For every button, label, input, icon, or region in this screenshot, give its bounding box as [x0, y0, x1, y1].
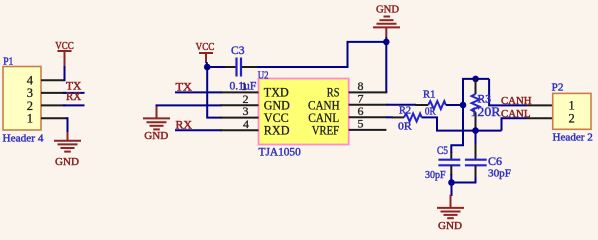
wire CANH black to P2 pin1	[526, 104, 553, 106]
svg-text:RX: RX	[66, 91, 82, 103]
pin 4 of P1	[41, 79, 65, 81]
wire top GND junction down to U2 pin8	[385, 37, 387, 92]
wire TX to U2 pin1	[175, 91, 222, 93]
wire GND to U2 pin2	[157, 105, 223, 106]
svg-text:P2: P2	[552, 81, 564, 93]
wire TX stub (P1)	[63, 92, 85, 94]
svg-text:C5: C5	[437, 145, 448, 157]
wire CANL black to P2 pin2	[526, 117, 553, 119]
wire CANH branch down to C5	[451, 105, 463, 153]
svg-text:2: 2	[569, 111, 575, 125]
svg-text:120R: 120R	[471, 104, 501, 119]
svg-text:R2: R2	[399, 105, 411, 117]
capacitor C5	[425, 145, 460, 181]
power VCC (C3 node)	[196, 41, 215, 63]
pin 8 of U2	[349, 91, 388, 93]
resistor R1	[415, 89, 445, 118]
svg-text:Header 4: Header 4	[3, 133, 45, 145]
svg-text:C6: C6	[488, 156, 502, 168]
pin 2 of U2	[220, 104, 259, 106]
wire U2 pin6 to R2	[387, 116, 393, 118]
wire VCC junction to C3	[207, 66, 225, 68]
junction CANH node	[460, 102, 467, 109]
junction at VCC node	[204, 64, 211, 71]
svg-text:Header 2: Header 2	[553, 132, 593, 144]
ground GND (top, inverted)	[373, 3, 400, 37]
junction R3 bottom	[472, 127, 479, 134]
pin 1 of P1	[41, 117, 68, 119]
junction R3 top	[472, 76, 479, 83]
wire VCC stub down to junction	[206, 62, 208, 67]
svg-text:TXD: TXD	[264, 86, 289, 100]
svg-text:U2: U2	[258, 70, 269, 82]
resistor R2	[398, 105, 422, 133]
svg-text:C3: C3	[231, 43, 245, 57]
svg-text:GND: GND	[144, 130, 168, 142]
pin 3 of P1	[41, 92, 66, 94]
resistor R3	[471, 79, 501, 131]
junction at top GND	[383, 39, 390, 46]
svg-text:GND: GND	[376, 3, 399, 15]
wire C6 bottom to GND junction	[475, 165, 477, 178]
pin 5 of U2	[349, 129, 387, 131]
wire down to CANH output	[489, 79, 526, 106]
svg-text:5: 5	[358, 117, 364, 131]
svg-text:GND: GND	[438, 220, 462, 232]
wire C5 bottom to GND junction	[450, 165, 452, 175]
junction GND node	[448, 179, 455, 186]
wire U2 pin7 to R1	[387, 104, 416, 106]
power VCC (P1)	[55, 40, 74, 67]
svg-text:1: 1	[27, 112, 33, 126]
svg-text:RS: RS	[327, 86, 340, 100]
svg-text:0R: 0R	[398, 121, 413, 133]
connector P2	[552, 81, 593, 143]
wire R1 to CANH junction	[446, 104, 463, 106]
wire RX to U2 pin4	[175, 129, 222, 131]
pin 4 of U2	[220, 129, 259, 131]
svg-text:RXD: RXD	[264, 124, 290, 138]
pin 6 of U2	[349, 116, 388, 118]
pin 1 of U2	[220, 91, 259, 93]
pin 7 of U2	[349, 104, 388, 106]
svg-text:GND: GND	[55, 156, 79, 168]
wire R3 bottom to C6	[475, 131, 477, 145]
svg-text:P1: P1	[3, 55, 13, 67]
svg-text:R1: R1	[423, 89, 436, 101]
wire CANH node up and over to R3 top	[463, 79, 489, 105]
svg-text:30pF: 30pF	[488, 168, 511, 180]
wire P1 pin1 down to GND	[66, 118, 68, 133]
wire junction down to GND	[451, 183, 453, 197]
capacitor C6	[465, 156, 511, 180]
wire VCC junction down to U2 pin3	[207, 67, 222, 118]
ground GND (bottom right)	[437, 195, 464, 232]
wire C3 to top GND	[257, 42, 386, 67]
svg-text:30pF: 30pF	[425, 169, 446, 181]
wire CANL up to P2 pin2	[502, 118, 527, 130]
pin 2 of P1	[41, 104, 66, 106]
svg-text:0R: 0R	[425, 106, 436, 118]
svg-text:VREF: VREF	[312, 124, 339, 138]
capacitor C3	[225, 43, 258, 93]
ground GND (U2 pin2 net)	[143, 105, 170, 142]
svg-text:0.1uF: 0.1uF	[230, 79, 257, 93]
pin 3 of U2	[220, 117, 259, 119]
svg-text:TJA1050: TJA1050	[259, 146, 302, 158]
svg-text:VCC: VCC	[196, 41, 215, 53]
connector P1	[3, 55, 45, 144]
wire P1 pin4 to VCC	[64, 66, 66, 81]
op IC U2 TJA1050	[258, 70, 349, 159]
svg-text:4: 4	[243, 117, 249, 131]
ground GND (P1)	[54, 132, 81, 168]
wire R2 to CANL jog	[422, 117, 502, 130]
wire RX stub (P1)	[63, 104, 85, 106]
